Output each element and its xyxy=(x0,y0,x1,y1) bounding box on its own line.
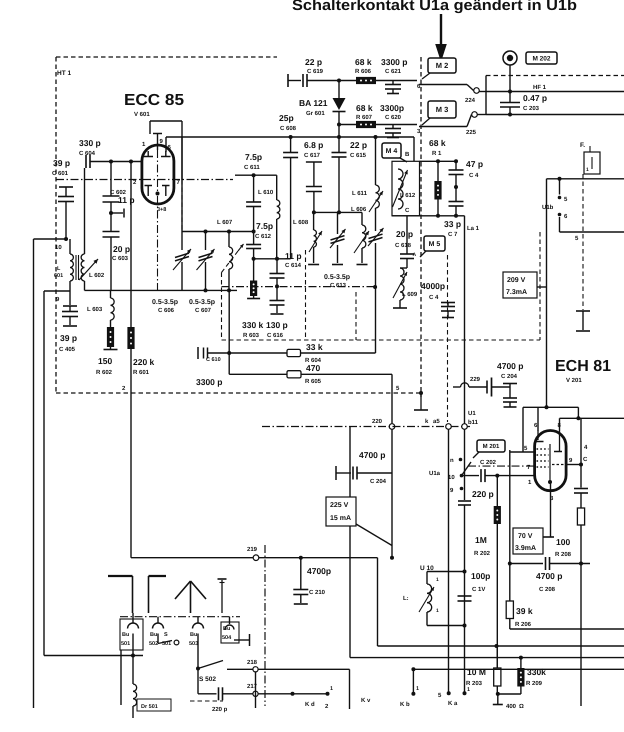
svg-text:U1: U1 xyxy=(468,410,476,417)
node xyxy=(508,90,512,94)
M5 measuring point xyxy=(420,236,445,257)
resistor R607 68k xyxy=(356,103,376,128)
wire 217 with capacitor xyxy=(198,669,333,701)
labels C613 xyxy=(324,274,350,289)
oscillator column xyxy=(375,287,377,353)
capacitor C204 4700p (right) xyxy=(491,361,523,407)
node xyxy=(109,160,113,164)
resistor R1 68k xyxy=(429,138,446,216)
svg-text:R 203: R 203 xyxy=(466,680,483,687)
svg-text:b11: b11 xyxy=(468,419,479,426)
svg-text:C 204: C 204 xyxy=(370,478,387,485)
coil L601 xyxy=(54,239,73,291)
capacitor C208 4700p xyxy=(510,557,590,593)
trimmer C606 xyxy=(173,232,191,291)
svg-text:n: n xyxy=(450,458,454,464)
svg-text:220 p: 220 p xyxy=(212,706,228,713)
svg-text:33 k: 33 k xyxy=(306,342,323,352)
svg-text:1: 1 xyxy=(416,686,419,692)
wire k a5 column xyxy=(438,430,458,708)
resistor R209 330k xyxy=(498,658,546,694)
svg-text:1: 1 xyxy=(436,577,439,583)
bus wire xyxy=(350,427,624,660)
label ECC 85 xyxy=(124,92,184,109)
node xyxy=(463,624,467,628)
svg-text:C 614: C 614 xyxy=(285,262,302,269)
ECC85 pin 9 lead xyxy=(153,134,162,151)
capacitor C204 4700p (left) xyxy=(336,450,392,485)
ECH81 interior xyxy=(535,431,567,485)
svg-text:330 p: 330 p xyxy=(79,138,101,148)
svg-text:22 p: 22 p xyxy=(350,140,367,150)
dashed line to core xyxy=(576,174,590,331)
svg-text:225: 225 xyxy=(466,129,477,136)
svg-text:4000p: 4000p xyxy=(421,281,445,291)
svg-text:330k: 330k xyxy=(527,667,546,677)
grid resistor column R601 xyxy=(122,162,155,558)
grid2 wire xyxy=(235,173,277,177)
svg-text:229: 229 xyxy=(470,376,481,383)
svg-text:L 612: L 612 xyxy=(400,192,416,199)
choke Dr501 xyxy=(133,656,137,719)
cable node b11 xyxy=(462,410,479,429)
label HT1 xyxy=(57,70,71,77)
svg-text:R 605: R 605 xyxy=(305,378,322,385)
antenna bus wire xyxy=(44,654,143,658)
svg-text:V 601: V 601 xyxy=(134,111,150,118)
svg-text:4700 p: 4700 p xyxy=(497,361,523,371)
svg-text:L 602: L 602 xyxy=(89,272,105,279)
coax connector M202 xyxy=(503,51,517,92)
svg-text:Bu: Bu xyxy=(150,632,157,638)
vertical column 218-217 xyxy=(255,672,257,708)
coil L606 xyxy=(351,206,369,253)
svg-text:470: 470 xyxy=(306,363,320,373)
svg-text:100p: 100p xyxy=(471,571,490,581)
svg-text:C 615: C 615 xyxy=(350,152,367,159)
bus wire 219 xyxy=(131,546,378,561)
ECH81 pin labels xyxy=(524,422,588,502)
wire 218 xyxy=(227,659,350,672)
svg-text:C 620: C 620 xyxy=(385,114,402,121)
svg-text:C: C xyxy=(583,456,588,463)
wire xyxy=(464,572,466,626)
svg-text:C 601: C 601 xyxy=(52,170,69,177)
svg-text:BA 121: BA 121 xyxy=(299,98,328,108)
svg-text:L 607: L 607 xyxy=(217,219,233,226)
svg-text:U 10: U 10 xyxy=(420,565,434,572)
svg-text:4700 p: 4700 p xyxy=(536,571,562,581)
pin 6 xyxy=(417,83,421,90)
switch S502 xyxy=(196,661,223,684)
wire xyxy=(390,430,394,560)
capacitor C621 3300p xyxy=(381,57,407,94)
capacitor C602 11p / C603 20p xyxy=(103,162,135,291)
trimmer column C613a xyxy=(330,212,346,264)
svg-text:3300 p: 3300 p xyxy=(381,57,407,67)
node xyxy=(508,113,512,117)
pin B row xyxy=(405,151,458,163)
capacitor C7 33p xyxy=(444,187,464,238)
label 220p xyxy=(212,706,228,713)
jack Bu501 xyxy=(120,613,143,656)
svg-text:3300p: 3300p xyxy=(380,103,404,113)
lamp line La1 xyxy=(465,216,480,424)
capacitor C1V 100p xyxy=(458,571,491,601)
transformer core xyxy=(76,255,79,280)
capacitor C601 39p xyxy=(52,158,74,241)
svg-text:11 p: 11 p xyxy=(285,251,302,261)
node xyxy=(463,570,467,574)
feedthrough capacitor 229 xyxy=(453,376,492,397)
svg-text:504: 504 xyxy=(222,635,232,641)
svg-text:C 1V: C 1V xyxy=(472,586,485,593)
switch U1b contacts xyxy=(542,179,568,220)
annotation arrow xyxy=(435,14,447,62)
svg-text:C 619: C 619 xyxy=(307,68,324,75)
capacitor C610 xyxy=(196,347,222,387)
capacitor C619 22p xyxy=(288,57,339,87)
svg-text:1: 1 xyxy=(586,167,589,173)
svg-text:400: 400 xyxy=(506,703,517,710)
svg-text:R 606: R 606 xyxy=(355,68,372,75)
wire xyxy=(478,114,487,116)
svg-text:C 210: C 210 xyxy=(309,589,326,596)
jack Bu503 xyxy=(189,617,204,669)
svg-text:R 208: R 208 xyxy=(555,551,572,558)
capacitor C210 4700p xyxy=(293,558,331,604)
pin 3 xyxy=(417,128,421,135)
signal column U1-b11 xyxy=(464,430,466,501)
ECC85 axis xyxy=(156,150,160,196)
label V201 xyxy=(566,377,582,384)
label ECH 81 xyxy=(555,358,611,375)
ECC85 pin 6 lead xyxy=(165,137,167,152)
svg-text:47 p: 47 p xyxy=(466,159,483,169)
mechanical dash bus xyxy=(222,339,541,341)
M201 measuring point xyxy=(473,440,505,458)
svg-text:La 1: La 1 xyxy=(467,225,480,232)
wire 225 line xyxy=(486,114,624,116)
svg-text:F.: F. xyxy=(580,142,585,149)
tuning gang axis (dash-dot) xyxy=(56,179,233,181)
jack Bu502 xyxy=(149,617,179,647)
svg-text:M 201: M 201 xyxy=(483,443,500,450)
capacitor C617 6.8p xyxy=(304,140,323,214)
capacitor C612 7.5p xyxy=(246,221,273,259)
chassis dash-dot vertical xyxy=(264,545,266,706)
capacitor C616 130p xyxy=(266,286,288,339)
svg-text:U1a: U1a xyxy=(429,470,441,477)
svg-text:11 p: 11 p xyxy=(118,195,135,205)
title note: Schalterkontakt U1a geaendert in U1b xyxy=(292,0,577,14)
cable labels xyxy=(305,697,410,710)
bus wire xyxy=(378,644,624,648)
M3 measuring point xyxy=(422,101,456,125)
tube ECH81 V201 xyxy=(535,431,567,491)
capacitor C604 330p xyxy=(79,138,141,168)
svg-text:K a: K a xyxy=(448,700,458,707)
svg-text:K v: K v xyxy=(361,697,371,704)
svg-text:M 202: M 202 xyxy=(532,55,550,62)
trimmer C607 xyxy=(197,232,215,291)
svg-text:C 612: C 612 xyxy=(255,233,272,240)
callout 70V 3.9mA xyxy=(513,528,543,554)
core linkage dashed xyxy=(221,273,223,341)
dashed link La1 xyxy=(447,255,449,422)
svg-text:25p: 25p xyxy=(279,113,294,123)
svg-text:R 602: R 602 xyxy=(96,369,113,376)
svg-text:Dr 501: Dr 501 xyxy=(141,704,158,710)
wire xyxy=(314,211,362,213)
svg-text:Bu: Bu xyxy=(223,626,230,632)
svg-text:Gr 601: Gr 601 xyxy=(306,110,325,117)
svg-text:7.3mA: 7.3mA xyxy=(506,289,527,296)
mechanical bus (dash-dot) xyxy=(222,285,378,289)
core dashed xyxy=(355,292,357,340)
pin 9 wire xyxy=(566,457,583,467)
long line to tube xyxy=(545,179,549,409)
AVC dash-dot line xyxy=(262,426,470,428)
svg-text:L:: L: xyxy=(403,595,409,602)
wire to plug 224 xyxy=(419,85,474,91)
capacitor C614 11p xyxy=(270,251,302,288)
left border wire xyxy=(33,239,35,708)
coil L602 xyxy=(81,168,105,290)
node xyxy=(129,160,133,164)
cable node a5 xyxy=(425,418,451,429)
svg-text:HF 1: HF 1 xyxy=(533,84,547,91)
svg-text:K b: K b xyxy=(400,701,410,708)
svg-text:C 611: C 611 xyxy=(244,164,260,171)
pin labels 1 9 6 2 7 xyxy=(133,138,181,186)
resistor R206 39k xyxy=(506,601,533,629)
svg-text:ECH 81: ECH 81 xyxy=(555,358,611,375)
svg-text:Ω: Ω xyxy=(519,703,524,710)
svg-text:C 604: C 604 xyxy=(79,150,96,157)
wire L607 bus xyxy=(182,230,256,234)
svg-text:4700 p: 4700 p xyxy=(359,450,385,460)
resistor R202 1M xyxy=(474,476,501,668)
capacitor C405 39p xyxy=(59,291,78,353)
wire xyxy=(339,124,356,126)
capacitor C608 25p xyxy=(279,113,298,259)
wire xyxy=(228,290,230,374)
pin 3 cathode xyxy=(543,482,554,537)
svg-text:6.8 p: 6.8 p xyxy=(304,140,323,150)
svg-text:70 V: 70 V xyxy=(518,533,533,540)
chassis dash-dot line xyxy=(120,616,240,618)
core dashed xyxy=(305,250,307,340)
switch S501 label xyxy=(162,632,171,647)
svg-text:39 p: 39 p xyxy=(53,158,70,168)
right column xyxy=(555,418,588,706)
svg-text:7.5p: 7.5p xyxy=(245,152,262,162)
svg-text:M 5: M 5 xyxy=(429,241,441,248)
svg-text:0.5-3.5p: 0.5-3.5p xyxy=(189,299,215,306)
tank1 rotor wire xyxy=(85,288,238,292)
wire corner xyxy=(377,558,379,646)
svg-text:1M: 1M xyxy=(475,535,487,545)
arrow antenna symbol xyxy=(175,581,206,613)
plug contact 224 xyxy=(465,88,479,104)
svg-text:C 405: C 405 xyxy=(59,346,76,353)
svg-text:33 p: 33 p xyxy=(444,219,461,229)
resistor R603 330k xyxy=(242,259,264,339)
wire from anode row xyxy=(413,137,415,161)
dipole antenna symbol xyxy=(108,576,166,613)
Dr501 label box xyxy=(137,699,171,711)
svg-text:L 606: L 606 xyxy=(351,206,367,213)
ECC85 interior xyxy=(144,151,171,196)
svg-text:501: 501 xyxy=(121,641,130,647)
M202 label box xyxy=(526,52,557,64)
wire tap row xyxy=(252,257,291,261)
svg-text:0.5-3.5p: 0.5-3.5p xyxy=(152,299,178,306)
left wire to antenna bus xyxy=(43,291,45,656)
wire down through pin 5 xyxy=(392,374,400,423)
svg-text:0.47 p: 0.47 p xyxy=(523,93,547,103)
svg-text:C 203: C 203 xyxy=(523,105,540,112)
svg-text:1: 1 xyxy=(467,687,470,693)
cable node 220 xyxy=(372,418,395,429)
wire xyxy=(463,626,471,696)
switch U1a xyxy=(429,458,471,494)
svg-text:C 616: C 616 xyxy=(267,332,284,339)
svg-text:Bu: Bu xyxy=(122,632,129,638)
svg-text:Schalterkontakt U1a geändert i: Schalterkontakt U1a geändert in U1b xyxy=(292,0,577,14)
column to L607 bus xyxy=(181,137,183,232)
svg-text:ECC 85: ECC 85 xyxy=(124,92,184,109)
svg-text:HT 1: HT 1 xyxy=(57,70,71,77)
svg-text:4700p: 4700p xyxy=(307,566,331,576)
svg-text:15 mA: 15 mA xyxy=(330,515,351,522)
svg-text:C 607: C 607 xyxy=(195,307,212,314)
plug contact 225 xyxy=(466,112,477,136)
coil L607 xyxy=(217,219,233,290)
svg-text:1: 1 xyxy=(436,608,439,614)
svg-text:10: 10 xyxy=(55,244,62,251)
capacitor C4b 4000p xyxy=(421,281,455,318)
svg-text:0.5-3.5p: 0.5-3.5p xyxy=(324,274,350,281)
resistor R606 68k xyxy=(355,57,376,84)
svg-text:68 k: 68 k xyxy=(429,138,446,148)
tube ECC85 V601 xyxy=(142,145,174,204)
wire xyxy=(376,124,417,126)
svg-text:C 204: C 204 xyxy=(501,373,518,380)
aux antenna symbol xyxy=(218,579,227,613)
tuning arrow L602 xyxy=(79,259,98,280)
screen column xyxy=(508,450,512,601)
svg-text:R 202: R 202 xyxy=(474,550,491,557)
callout 209V 7.3mA xyxy=(503,272,547,298)
column end xyxy=(357,248,368,265)
svg-text:V 201: V 201 xyxy=(566,377,582,384)
wire xyxy=(339,80,356,82)
svg-text:220 k: 220 k xyxy=(133,357,155,367)
svg-text:R 209: R 209 xyxy=(526,680,543,687)
wire xyxy=(480,91,487,93)
svg-text:C 606: C 606 xyxy=(158,307,175,314)
svg-text:68 k: 68 k xyxy=(355,57,372,67)
capacitor C4 47p xyxy=(449,159,484,189)
coil L608 xyxy=(293,212,322,264)
jack Bu504 xyxy=(221,617,250,646)
svg-text:L 611: L 611 xyxy=(352,190,368,197)
chassis stub xyxy=(493,694,524,710)
svg-text:3.9mA: 3.9mA xyxy=(515,545,536,552)
capacitor 220p xyxy=(458,489,494,572)
wire node 9 xyxy=(44,291,70,303)
svg-text:502: 502 xyxy=(149,641,158,647)
wire node 10 xyxy=(34,239,69,251)
dashed link right xyxy=(539,232,541,340)
svg-text:1: 1 xyxy=(330,686,333,692)
grid dash-dot pin7 xyxy=(468,465,535,467)
wire anode row xyxy=(166,135,414,139)
svg-text:220: 220 xyxy=(372,418,383,425)
oscillator coil U10 xyxy=(403,565,465,626)
capacitor C202 xyxy=(462,459,535,482)
capacitor C611 7.5p xyxy=(244,152,262,231)
coil L610 branch xyxy=(258,175,280,259)
svg-text:M 2: M 2 xyxy=(436,61,449,70)
svg-text:7.5p: 7.5p xyxy=(256,221,273,231)
svg-text:R 206: R 206 xyxy=(515,621,532,628)
svg-text:150: 150 xyxy=(98,356,112,366)
svg-text:S 502: S 502 xyxy=(199,676,216,683)
svg-text:S: S xyxy=(164,632,168,638)
svg-text:C 4: C 4 xyxy=(469,172,479,179)
svg-text:224: 224 xyxy=(465,97,476,104)
core arrow L607 xyxy=(222,244,244,273)
wire R605 row xyxy=(229,373,287,375)
svg-text:601: 601 xyxy=(54,273,63,279)
M4 measuring point xyxy=(382,143,407,162)
svg-text:68 k: 68 k xyxy=(356,103,373,113)
coil L611 xyxy=(352,137,383,231)
svg-text:20 p: 20 p xyxy=(113,244,130,254)
heater lead dashed xyxy=(157,196,159,290)
wire dashed top right xyxy=(486,75,624,77)
svg-text:L 608: L 608 xyxy=(293,219,309,226)
svg-text:C 4: C 4 xyxy=(429,294,439,301)
wire corner xyxy=(349,669,351,709)
wire xyxy=(485,76,487,115)
node j1 xyxy=(337,79,341,83)
svg-text:3300 p: 3300 p xyxy=(196,377,222,387)
capacitor C615 22p xyxy=(332,137,368,214)
svg-text:22 p: 22 p xyxy=(305,57,322,67)
svg-text:R 607: R 607 xyxy=(356,114,373,121)
wire xyxy=(560,217,624,242)
svg-text:U1b: U1b xyxy=(542,204,554,211)
svg-text:C 202: C 202 xyxy=(480,459,497,466)
pin C row xyxy=(392,207,465,218)
wire AVC row xyxy=(208,351,288,355)
svg-text:L 603: L 603 xyxy=(87,306,103,313)
wire to plug 225 xyxy=(419,115,472,127)
svg-text:C 208: C 208 xyxy=(539,586,556,593)
svg-text:225 V: 225 V xyxy=(330,502,349,509)
U1b feed line xyxy=(547,177,624,181)
svg-text:209 V: 209 V xyxy=(507,277,526,284)
wire xyxy=(376,80,417,82)
svg-text:219: 219 xyxy=(247,546,258,553)
svg-text:10 M: 10 M xyxy=(467,667,486,677)
pin 5 wire xyxy=(510,451,536,453)
svg-text:10: 10 xyxy=(448,474,455,481)
